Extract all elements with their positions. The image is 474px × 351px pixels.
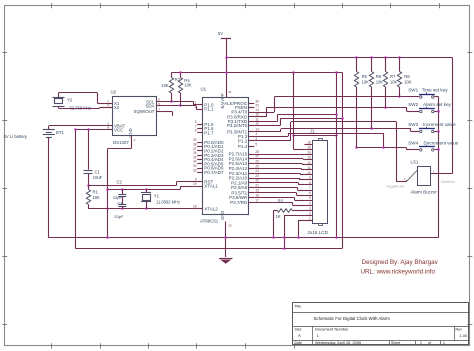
U1 pin 12 P3.2/INT0 [227, 121, 259, 128]
U2 pin 1 X1 [107, 99, 120, 106]
J1 pin 9 [304, 176, 312, 180]
svg-text:10K: 10K [161, 83, 169, 88]
U2 pin 2 X2 [107, 103, 120, 110]
wire 5V vertical to U1 EA pin [226, 39, 228, 98]
U1 pin 37 P0.2/AD2 [193, 147, 224, 154]
wire P2.7 to LCD D7 [254, 153, 304, 156]
U1 pin 15 P3.5/T1 [231, 189, 259, 196]
title block frame [293, 303, 470, 345]
U2 pin 8 VCC [107, 126, 124, 133]
wire P1.3 to SW4 row [254, 133, 419, 150]
J1 pin 13 [304, 156, 312, 160]
wire battery minus to ground rail [48, 137, 50, 237]
svg-text:16: 16 [255, 194, 259, 198]
svg-text:Time set key: Time set key [422, 88, 449, 93]
J1 pin 14 [304, 151, 312, 155]
resistor R2 contrast [272, 199, 304, 239]
svg-text:SW1: SW1 [408, 88, 418, 93]
svg-text:15: 15 [307, 146, 311, 150]
U1 pin 9 RST [195, 178, 214, 185]
U1 pin 10 P3.0/RXD [227, 113, 259, 120]
U1 pin 16 P3.6/WR [229, 194, 259, 201]
wire supply rail B [75, 248, 342, 250]
wire P3.4 to SW1 row [254, 95, 419, 112]
svg-text:of: of [428, 341, 431, 345]
svg-text:13: 13 [307, 156, 311, 160]
U1 pin 34 P0.5/AD5 [193, 160, 224, 167]
node RST junction [87, 184, 90, 187]
svg-text:7: 7 [158, 108, 160, 112]
svg-text:Rev: Rev [456, 327, 463, 331]
svg-text:18: 18 [193, 205, 197, 209]
svg-text:BT1: BT1 [56, 130, 64, 135]
IC U2 DS1307 body [111, 90, 157, 146]
U2 pin 6 SCL [146, 98, 162, 105]
J1 pin 10 [304, 171, 312, 175]
svg-text:21: 21 [255, 184, 259, 188]
U1 pin 25 P2.4/A12 [229, 164, 259, 171]
wire P3 to LCD E [254, 193, 304, 196]
wire P1.2 to buzzer [254, 122, 406, 182]
switch SW3 Increment value [408, 122, 456, 133]
svg-text:32.768 KHz: 32.768 KHz [70, 105, 91, 110]
wire SDA to P1.1 [162, 104, 197, 109]
svg-text:17: 17 [255, 198, 259, 202]
svg-text:2: 2 [107, 103, 109, 107]
J1 pin 6 [304, 191, 312, 195]
wire XTAL2 line [88, 207, 197, 210]
U1 pin 11 P3.1/TXD [228, 117, 259, 124]
svg-text:P1.2: P1.2 [238, 139, 248, 144]
U1 pin 22 P2.1/A9 [231, 179, 259, 186]
wire LCD backlight to 5V [292, 73, 304, 150]
U2 pin 7 SQW/OUT [134, 108, 162, 115]
svg-text:10K: 10K [376, 79, 384, 84]
svg-text:Y2: Y2 [67, 97, 73, 102]
J1 pin 8 [304, 181, 312, 185]
svg-text:4: 4 [134, 138, 136, 142]
svg-text:Schematic For Digital Clock Wi: Schematic For Digital Clock With Alarm [314, 316, 391, 321]
wire riser to ground rail [335, 71, 338, 239]
J1 pin 11 [304, 166, 312, 170]
capacitor C3 [114, 200, 126, 219]
net label NegativLine [387, 185, 405, 189]
resistor R6 [369, 56, 383, 129]
wire rail B riser to U2 VCC [75, 130, 77, 249]
svg-text:XTAL2: XTAL2 [204, 206, 218, 211]
wire ground rail A [49, 237, 439, 239]
svg-text:NegativLine: NegativLine [387, 185, 405, 189]
svg-text:5: 5 [158, 102, 160, 106]
svg-text:10K: 10K [390, 79, 398, 84]
svg-text:Y1: Y1 [154, 193, 160, 198]
U1 pin 23 P2.2/A10 [229, 174, 259, 181]
wire P2.0 to LCD D0 [254, 188, 304, 191]
svg-text:C3: C3 [117, 200, 123, 205]
svg-text:Wednesday, April 26, 2006: Wednesday, April 26, 2006 [315, 340, 361, 345]
svg-text:1.00: 1.00 [460, 333, 468, 338]
U1 pin 31 EA/VPP [220, 90, 232, 109]
U1 pin 20 GND [220, 211, 232, 257]
resistor R8 [397, 56, 411, 97]
wire P2.3 to LCD D3 [254, 173, 304, 175]
svg-text:24: 24 [255, 169, 259, 173]
svg-text:33pF: 33pF [113, 195, 123, 200]
svg-text:3: 3 [309, 206, 311, 210]
wire buzzer to 5V riser [430, 169, 452, 173]
U1 pin 39 P0.0/AD0 [193, 138, 224, 145]
title block labels [295, 304, 468, 345]
svg-text:2: 2 [309, 211, 311, 215]
J1 pin 3 [304, 206, 312, 210]
svg-text:U1: U1 [201, 87, 207, 92]
U1 pin 3 P1.2 [238, 137, 257, 144]
crystal Y2 [53, 97, 91, 110]
wire VCC line [74, 128, 106, 131]
svg-text:8: 8 [195, 129, 197, 133]
wire Y2 top to U2 X1 [59, 93, 113, 104]
svg-text:A: A [298, 333, 301, 338]
svg-text:SW3: SW3 [408, 122, 418, 127]
wire P3 to LCD RW [254, 198, 304, 201]
svg-text:10K: 10K [184, 83, 192, 88]
wire backlight wrap [294, 135, 338, 137]
U1 pin 6 P1.5 [195, 120, 214, 127]
svg-text:Alarm set key: Alarm set key [423, 102, 452, 107]
J1 pin 16 [304, 141, 312, 145]
svg-text:11: 11 [307, 166, 311, 170]
label 3V Li battery [4, 134, 28, 139]
switch common junctions [437, 110, 440, 151]
wire XTAL1 line [108, 186, 197, 191]
svg-text:SW4: SW4 [408, 140, 418, 145]
svg-text:14: 14 [307, 151, 311, 155]
svg-text:XTAL1: XTAL1 [204, 184, 218, 189]
U1 pin 36 P0.3/AD3 [193, 151, 224, 158]
switch SW2 Alarm set key [408, 102, 451, 113]
wire Y2 bottom to U2 X2 [59, 106, 113, 108]
IC U1 AT89C51 body [200, 87, 249, 224]
capacitor C2 [113, 180, 127, 204]
svg-text:Alarm Buzzer: Alarm Buzzer [411, 190, 438, 195]
J1 pin 2 [304, 211, 312, 215]
svg-text:Decrement value: Decrement value [424, 140, 459, 145]
svg-text:1: 1 [420, 341, 422, 345]
U1 pin 27 P2.6/A14 [229, 155, 259, 162]
svg-text:2: 2 [195, 105, 197, 109]
wire battery plus to VBAT [49, 126, 107, 130]
net label ToddLine [441, 180, 456, 184]
svg-text:10K: 10K [93, 195, 101, 200]
wire P2.5 to LCD D5 [254, 164, 304, 165]
svg-text:Title: Title [295, 304, 302, 308]
U1 pin 35 P0.4/AD4 [193, 155, 224, 162]
U1 pin 1 P1.0 [195, 101, 214, 108]
resistor R4 [178, 71, 191, 105]
U1 pin 2 P1.1 [195, 105, 214, 112]
resistor R1 [86, 185, 100, 209]
wire R3R4 pullup rail [171, 71, 342, 74]
svg-text:X2: X2 [114, 105, 120, 110]
svg-text:19: 19 [193, 182, 197, 186]
svg-text:AT89C51: AT89C51 [200, 218, 219, 223]
svg-text:20: 20 [228, 224, 232, 228]
power symbol 5V [218, 31, 231, 38]
wire SCL to P1.0 [162, 100, 197, 105]
svg-text:Date: Date [295, 341, 302, 345]
buzzer LS1 [406, 159, 437, 194]
svg-text:10K: 10K [404, 79, 412, 84]
svg-text:LS1: LS1 [411, 159, 419, 164]
U2 pin 3 VBAT [107, 122, 126, 129]
svg-text:10uF: 10uF [93, 175, 103, 180]
U1 pin 19 XTAL1 [193, 182, 218, 189]
svg-text:5: 5 [255, 142, 257, 146]
wire 5V right vertical to buzzer [452, 58, 454, 174]
title text [314, 316, 391, 321]
svg-text:4: 4 [255, 132, 257, 136]
wire 5V rail top [225, 56, 452, 59]
svg-text:1K: 1K [276, 214, 281, 219]
svg-text:29: 29 [255, 103, 259, 107]
U1 pin 21 P2.0/A8 [231, 184, 259, 191]
svg-text:8: 8 [107, 126, 109, 130]
wire P2.4 to LCD D4 [254, 168, 304, 169]
switch SW1 Time set key [408, 88, 448, 99]
wire P3.2 band to 5V branch [254, 117, 343, 125]
svg-text:P0.7/AD7: P0.7/AD7 [204, 170, 224, 175]
wire P3.3 to SW3 row [254, 127, 419, 131]
svg-text:GND: GND [220, 211, 225, 220]
svg-text:4: 4 [309, 201, 311, 205]
svg-text:7: 7 [309, 186, 311, 190]
ground symbol [219, 259, 232, 264]
U1 pin 32 P0.7/AD7 [193, 168, 224, 175]
resistor R5 [354, 56, 369, 147]
svg-text:Document Number: Document Number [315, 327, 349, 332]
U2 pin 5 SDA [145, 102, 161, 109]
crystal Y1 [141, 189, 180, 209]
svg-text:9: 9 [309, 176, 311, 180]
svg-text:DS1307: DS1307 [113, 140, 129, 145]
svg-text:P1.4: P1.4 [238, 144, 248, 149]
U1 pin 4 P1.3 [238, 132, 257, 139]
wire U2 GND down [106, 135, 131, 238]
connector J1 body [308, 129, 329, 235]
svg-text:ToddlLine: ToddlLine [441, 180, 456, 184]
U1 pin 14 P3.4/T0 [231, 108, 259, 115]
svg-text:R2: R2 [278, 199, 284, 204]
capacitor C1 [84, 130, 103, 186]
svg-text:33pF: 33pF [114, 214, 124, 219]
buzzer pin 2 mark [404, 177, 407, 182]
svg-text:23: 23 [255, 174, 259, 178]
battery BT1 [43, 130, 65, 138]
wire P3.0 to SW2 row [254, 106, 419, 117]
svg-text:P3.2/INT0: P3.2/INT0 [227, 123, 248, 128]
J1 pin 12 [304, 161, 312, 165]
svg-text:C2: C2 [117, 180, 123, 185]
U1 pin 28 P2.7/A15 [229, 150, 259, 157]
svg-text:8: 8 [309, 181, 311, 185]
switch SW4 Decrement value [408, 140, 458, 151]
U1 pin 5 P1.4 [238, 142, 257, 149]
svg-text:14: 14 [255, 108, 259, 112]
U1 pin 18 XTAL2 [193, 205, 218, 212]
J1 pin 7 [304, 186, 312, 190]
svg-text:16: 16 [307, 141, 311, 145]
J1 pin 5 [304, 196, 312, 200]
svg-text:P1.7: P1.7 [204, 130, 214, 135]
wire SQW stub [162, 111, 173, 115]
wire P3 to LCD RS [254, 202, 304, 205]
U1 pin 33 P0.6/AD6 [193, 164, 224, 171]
svg-text:P1.1: P1.1 [204, 107, 214, 112]
wire 5V branch down to supply rail [342, 73, 344, 249]
credit text [361, 259, 439, 276]
svg-text:1: 1 [443, 341, 445, 345]
wire P3.1 band to LCD backlight riser [254, 114, 337, 121]
svg-text:SW2: SW2 [408, 102, 418, 107]
svg-text:VCC: VCC [114, 128, 123, 133]
resistor R7 [383, 56, 397, 107]
U1 pin 17 P3.7/RD [230, 198, 259, 205]
svg-text:3V Li battery: 3V Li battery [4, 134, 28, 139]
U1 pin 8 P1.7 [195, 129, 214, 136]
U1 pin 29 PSEN [235, 103, 259, 110]
U1 pin 26 P2.5/A13 [229, 160, 259, 167]
wire ground rail right riser [438, 97, 440, 238]
svg-text:U2: U2 [111, 90, 117, 95]
svg-text:28: 28 [255, 150, 259, 154]
svg-text:URL: www.rickeyworld.info: URL: www.rickeyworld.info [361, 269, 436, 276]
svg-text:6: 6 [309, 191, 311, 195]
svg-text:10K: 10K [362, 79, 370, 84]
svg-text:P3.7/RD: P3.7/RD [230, 200, 248, 205]
svg-text:Size: Size [295, 327, 302, 331]
svg-text:SQW/OUT: SQW/OUT [134, 109, 155, 114]
U1 pin 38 P0.1/AD1 [193, 143, 224, 150]
svg-text:10: 10 [307, 171, 311, 175]
J1 pin 4 [304, 201, 312, 205]
wire P2.6 to LCD D6 [254, 159, 304, 160]
svg-text:25: 25 [255, 164, 259, 168]
wire P2.1 to LCD D1 [254, 183, 304, 185]
resistor R3 [161, 73, 181, 102]
wire P2.2 to LCD D2 [254, 178, 304, 180]
svg-text:11.0592 MHz: 11.0592 MHz [156, 200, 180, 205]
svg-text:Increment value: Increment value [423, 122, 456, 127]
wire LCD VSS to ground [297, 220, 304, 238]
U2 pin 4 GND [128, 128, 136, 142]
svg-text:2x16 LCD: 2x16 LCD [308, 230, 329, 235]
svg-text:1: 1 [309, 217, 311, 221]
svg-text:31: 31 [228, 90, 232, 94]
U1 pin 30 ALE/PROG [224, 99, 259, 106]
U1 pin 7 P1.6 [195, 124, 214, 131]
svg-text:5V: 5V [218, 31, 223, 36]
U1 pin 13 P3.3/INT1 [227, 128, 259, 135]
U1 pin 24 P2.3/A11 [229, 169, 259, 176]
svg-text:12: 12 [307, 161, 311, 165]
wire RST line [88, 182, 197, 186]
svg-text:Sheet: Sheet [391, 341, 400, 345]
svg-text:Designed By: Ajay Bhargav: Designed By: Ajay Bhargav [362, 259, 439, 266]
wire LCD VDD to rail B [283, 215, 304, 249]
svg-text:26: 26 [255, 160, 259, 164]
svg-text:SDA: SDA [145, 104, 154, 109]
svg-text:J1: J1 [310, 129, 315, 134]
svg-text:5: 5 [309, 196, 311, 200]
svg-text:32: 32 [193, 168, 197, 172]
J1 pin 1 [304, 217, 312, 221]
J1 pin 15 [304, 146, 312, 150]
